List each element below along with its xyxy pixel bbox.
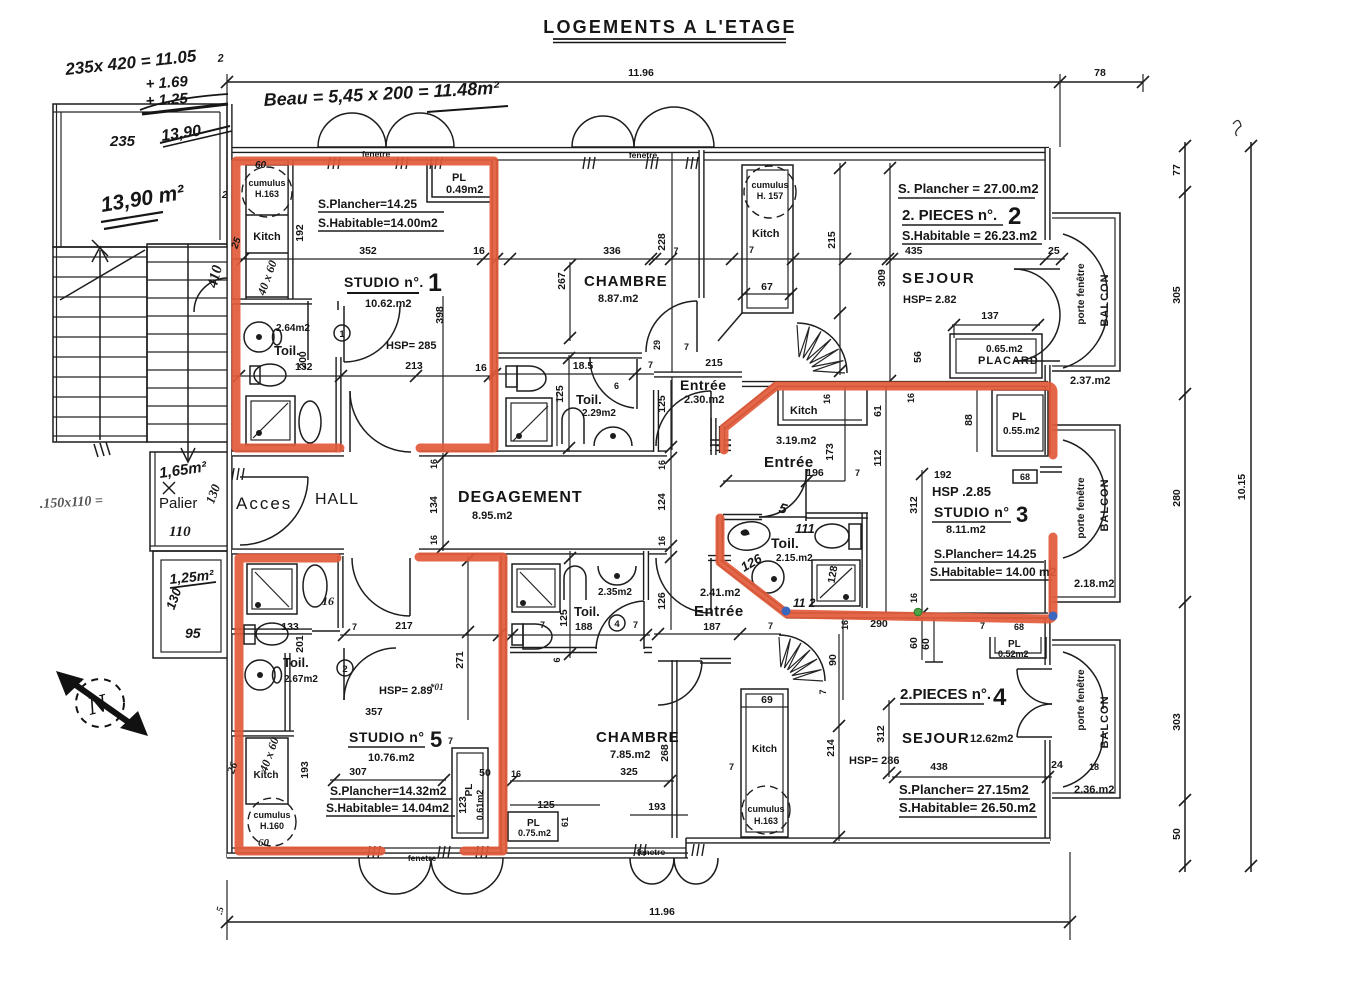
chambre top room walls: [497, 150, 714, 455]
svg-text:61: 61: [560, 817, 570, 827]
sejour unit 2: [902, 270, 1044, 363]
palier box: [150, 452, 228, 551]
svg-text:187: 187: [703, 621, 721, 633]
svg-text:*01: *01: [430, 682, 444, 692]
svg-text:352: 352: [359, 245, 377, 257]
walls of studio 3 boundary (under red): [719, 384, 1048, 616]
green node dot: [914, 608, 922, 616]
svg-text:Toil.: Toil.: [576, 392, 602, 407]
sink studio 5: [245, 660, 282, 690]
svg-text:porte fenêtre: porte fenêtre: [1076, 263, 1087, 325]
svg-text:0.65.m2: 0.65.m2: [986, 344, 1023, 355]
svg-text:305: 305: [1171, 286, 1183, 304]
studio 1 texts: [274, 197, 444, 358]
svg-text:S.Plancher= 14.25: S.Plancher= 14.25: [934, 547, 1037, 561]
studio 1 bathroom walls: [308, 301, 339, 452]
studio 5 bath labels: [281, 594, 353, 685]
svg-text:Toil.: Toil.: [574, 604, 600, 619]
svg-text:188: 188: [575, 621, 593, 633]
wall bottom (left part, lower): [227, 852, 688, 858]
PL 0.55 closet unit 3: [963, 390, 1048, 456]
door arc unit2 entry with tile hatch: [797, 323, 847, 373]
wc toilet 2.35: [564, 566, 586, 600]
svg-text:126: 126: [656, 592, 668, 610]
svg-text:10.15: 10.15: [1236, 474, 1248, 500]
svg-text:0.55.m2: 0.55.m2: [1003, 426, 1040, 437]
svg-text:cumulus: cumulus: [747, 804, 784, 814]
svg-text:6: 6: [614, 381, 619, 391]
svg-text:88: 88: [963, 414, 975, 426]
svg-text:16: 16: [840, 620, 850, 630]
svg-text:2: 2: [221, 190, 228, 201]
studio 5 texts: [299, 554, 505, 816]
svg-text:60: 60: [920, 638, 932, 650]
svg-text:213: 213: [405, 360, 423, 372]
svg-text:68: 68: [1020, 472, 1030, 482]
svg-text:16: 16: [475, 362, 487, 374]
dim column center x443: [428, 451, 449, 553]
top dimension line 11.96 / 78: [221, 67, 1149, 147]
svg-text:Toil.: Toil.: [283, 655, 309, 670]
svg-text:10.62.m2: 10.62.m2: [365, 298, 411, 310]
svg-text:S.Habitable = 26.23.m2: S.Habitable = 26.23.m2: [902, 229, 1037, 243]
svg-text:61: 61: [872, 405, 884, 417]
svg-text:11 2: 11 2: [793, 596, 816, 610]
svg-text:PL: PL: [464, 784, 475, 797]
corridor labels: [236, 489, 583, 522]
lower box (95): [153, 551, 228, 658]
dim columns unit2: [822, 162, 896, 404]
svg-text:S.Plancher=14.25: S.Plancher=14.25: [318, 197, 417, 211]
svg-text:SEJOUR: SEJOUR: [902, 270, 976, 287]
shower toilet 2.35: [512, 564, 560, 612]
unit3 toilet walls: [806, 469, 868, 608]
svg-text:Kitch: Kitch: [253, 231, 281, 243]
svg-text:312: 312: [908, 496, 920, 514]
palier label: [159, 482, 223, 540]
svg-text:2.15.m2: 2.15.m2: [776, 553, 813, 564]
svg-text:235: 235: [109, 133, 136, 150]
svg-text:90: 90: [827, 654, 839, 666]
svg-text:125: 125: [656, 395, 668, 413]
shower studio 5: [247, 564, 297, 614]
handwritten marks in unit 3 toilet: [738, 499, 816, 610]
svg-text:STUDIO n°: STUDIO n°: [349, 729, 424, 745]
svg-text:H.163: H.163: [754, 816, 778, 826]
svg-text:228: 228: [656, 233, 668, 251]
window fenetre bottom pair 2 (chambre): [630, 844, 718, 884]
handwritten Beau = 5,45x200: [263, 78, 508, 112]
shower studio 1: [246, 396, 295, 445]
svg-text:Toil.: Toil.: [274, 343, 300, 358]
svg-text:112: 112: [872, 449, 884, 466]
svg-text:H.163: H.163: [255, 189, 279, 199]
svg-text:2.PIECES n°.: 2.PIECES n°.: [900, 686, 991, 703]
red overlay studio 5: [239, 557, 503, 851]
balcony bottom box: [1052, 640, 1120, 798]
svg-text:6: 6: [552, 657, 562, 662]
kitchen unit 2: [718, 165, 797, 341]
svg-text:HSP= 2.89: HSP= 2.89: [379, 685, 433, 697]
cumulus H.163 studio 1: [242, 167, 292, 217]
svg-text:CHAMBRE: CHAMBRE: [584, 273, 668, 290]
svg-text:Entrée: Entrée: [680, 377, 727, 393]
svg-text:435: 435: [905, 245, 923, 257]
svg-text:60: 60: [255, 160, 267, 171]
blue node dot right: [1049, 612, 1058, 621]
wall left: [226, 104, 232, 858]
svg-text:+ 1.25: + 1.25: [145, 90, 189, 110]
svg-text:201: 201: [294, 635, 306, 653]
wc 2 studio 5: [244, 623, 288, 645]
placard unit 2: [950, 334, 1042, 378]
svg-text:309: 309: [876, 269, 888, 287]
balcony door unit3 sill: [1013, 467, 1062, 483]
handwritten 1,25 m2: [163, 566, 216, 641]
balcony door unit 4 inner arcs: [1017, 669, 1052, 737]
dim 267 chambre: [556, 262, 570, 341]
svg-text:7: 7: [633, 620, 638, 630]
stair walking line left flight: [99, 250, 101, 440]
svg-text:HALL: HALL: [315, 491, 359, 508]
svg-text:215: 215: [705, 357, 723, 369]
svg-text:7: 7: [749, 245, 754, 255]
svg-text:312: 312: [875, 725, 887, 743]
door arc stair landing to building: [194, 278, 228, 312]
svg-text:S.Habitable= 26.50.m2: S.Habitable= 26.50.m2: [899, 800, 1036, 815]
svg-text:271: 271: [454, 651, 466, 669]
door arc acces: [232, 468, 308, 545]
toilet 2.29 room fixtures: [506, 352, 632, 454]
wc studio 1: [250, 364, 286, 386]
shower unit 3: [812, 560, 860, 606]
svg-text:3: 3: [1016, 502, 1028, 527]
svg-text:2.18.m2: 2.18.m2: [1074, 578, 1114, 590]
balcony middle box: [1052, 425, 1120, 602]
toilet 2.35 room walls: [510, 551, 652, 660]
wall top: [227, 147, 1049, 153]
svg-text:2.41.m2: 2.41.m2: [700, 587, 740, 599]
svg-text:8.95.m2: 8.95.m2: [472, 510, 512, 522]
svg-text:268: 268: [659, 744, 671, 762]
svg-text:HSP= 286: HSP= 286: [849, 755, 899, 767]
svg-text:137: 137: [981, 310, 999, 322]
bottom dimension line 11.96: [214, 852, 1076, 940]
svg-text:2: 2: [216, 52, 224, 65]
svg-text:7: 7: [818, 689, 828, 694]
svg-text:12.62m2: 12.62m2: [970, 733, 1013, 745]
svg-text:H. 157: H. 157: [757, 191, 784, 201]
balcony door unit 2 inner arcs: [1014, 269, 1060, 361]
toilet 2.15 unit 3: [726, 519, 813, 593]
PL 0.75 closet chambre bottom: [508, 799, 600, 841]
svg-text:fenetre: fenetre: [408, 853, 437, 863]
door arc studio5 bathroom: [344, 648, 396, 700]
title LOGEMENTS A L'ETAGE: [543, 17, 796, 43]
svg-text:cumulus: cumulus: [253, 810, 290, 820]
handwritten 60 left wall marks: [221, 160, 267, 251]
svg-text:Kitch: Kitch: [790, 405, 818, 417]
svg-text:16: 16: [322, 594, 334, 608]
svg-text:cumulus: cumulus: [248, 178, 285, 188]
svg-text:196: 196: [806, 467, 824, 479]
svg-text:125: 125: [558, 609, 570, 627]
staircase right flight treads: [147, 244, 228, 462]
outer walls of building: [227, 104, 1050, 858]
studio 1 dims line y259: [232, 224, 494, 373]
svg-text:S.Plancher= 27.15m2: S.Plancher= 27.15m2: [899, 782, 1029, 797]
svg-text:7: 7: [855, 468, 860, 478]
svg-text:111: 111: [795, 521, 815, 536]
unit 2 title block: [886, 181, 1068, 265]
svg-text:Acces: Acces: [236, 494, 292, 513]
door arc unit4 entry with tile hatch: [779, 618, 943, 700]
svg-text:4: 4: [993, 684, 1007, 711]
svg-text:7: 7: [980, 621, 985, 631]
stair walking line right flight with down arrow: [187, 244, 189, 462]
svg-text:110: 110: [169, 524, 191, 540]
svg-text:280: 280: [1171, 489, 1183, 507]
svg-text:Toil.: Toil.: [771, 535, 799, 551]
chambre bottom labels: [506, 620, 688, 815]
svg-text:78: 78: [1094, 67, 1106, 79]
svg-text:SEJOUR: SEJOUR: [902, 730, 970, 747]
studio 1 : kitchen column walls: [232, 160, 312, 302]
datum line y259 middle segment: [491, 253, 894, 265]
svg-text:H.160: H.160: [260, 821, 284, 831]
svg-text:7: 7: [768, 621, 773, 631]
svg-text:LOGEMENTS A L'ETAGE: LOGEMENTS A L'ETAGE: [543, 17, 796, 37]
door arc chambre top: [646, 301, 697, 352]
studio 1 dims line y376: [232, 296, 496, 452]
svg-text:3.19.m2: 3.19.m2: [776, 435, 816, 447]
svg-text:29: 29: [652, 340, 662, 350]
wc unit 3: [815, 524, 861, 549]
door arc entree 2.30: [656, 391, 711, 446]
svg-text:398: 398: [434, 306, 446, 324]
svg-text:357: 357: [365, 706, 383, 718]
svg-text:cumulus: cumulus: [751, 180, 788, 190]
studio 5 right wall: [500, 556, 506, 853]
svg-text:133: 133: [281, 621, 299, 633]
svg-text:24: 24: [1051, 759, 1063, 771]
svg-text:HSP .2.85: HSP .2.85: [932, 484, 991, 499]
red overlay studio 3: [720, 386, 1053, 619]
dim column center x671: [656, 380, 677, 630]
svg-text:77: 77: [1171, 164, 1183, 176]
svg-text:DEGAGEMENT: DEGAGEMENT: [458, 489, 583, 506]
svg-text:7: 7: [684, 342, 689, 352]
svg-text:95: 95: [185, 625, 201, 641]
door arc entree 2.41: [656, 558, 711, 613]
blue node dot left: [782, 607, 791, 616]
svg-text:192: 192: [294, 224, 306, 242]
svg-text:CHAMBRE: CHAMBRE: [596, 729, 680, 746]
PL closet studio 5: [448, 736, 521, 838]
svg-text:BALCON: BALCON: [1099, 273, 1111, 326]
svg-text:267: 267: [556, 272, 568, 290]
svg-text:porte fenêtre: porte fenêtre: [1076, 477, 1087, 539]
studio 5 bathroom walls: [232, 556, 341, 734]
svg-text:16: 16: [657, 460, 667, 470]
svg-text:S.Plancher=14.32m2: S.Plancher=14.32m2: [330, 784, 447, 798]
svg-text:STUDIO n°: STUDIO n°: [934, 504, 1009, 520]
svg-text:50: 50: [1171, 828, 1183, 840]
svg-text:16: 16: [473, 245, 485, 257]
wc 2 studio 1: [299, 401, 321, 443]
handwritten 1,65 m2: [158, 458, 208, 494]
dim line toilet 2.35: [506, 629, 652, 641]
svg-text:porte fenêtre: porte fenêtre: [1076, 669, 1087, 731]
svg-text:193: 193: [299, 761, 311, 779]
svg-text:fenetre: fenetre: [637, 847, 666, 857]
svg-text:438: 438: [930, 761, 948, 773]
svg-text:16: 16: [429, 459, 439, 469]
studio 5 kitchen: [246, 735, 296, 849]
balcony top box: [1052, 213, 1120, 387]
svg-text:7: 7: [352, 622, 357, 632]
svg-text:2.37.m2: 2.37.m2: [1070, 375, 1110, 387]
hall top walls / entree 2.30: [652, 340, 742, 445]
svg-text:2: 2: [342, 664, 347, 675]
staircase landing box: [53, 104, 227, 247]
svg-text:2.35m2: 2.35m2: [598, 587, 632, 598]
svg-text:S. Plancher = 27.00.m2: S. Plancher = 27.00.m2: [898, 181, 1039, 196]
north arrow: [56, 671, 148, 736]
svg-text:123: 123: [457, 796, 469, 814]
svg-text:56: 56: [912, 351, 924, 363]
svg-text:69: 69: [761, 694, 773, 706]
door arc toilet 2.35: [596, 601, 644, 649]
unit 4 title block: [825, 634, 1099, 843]
svg-text:16: 16: [822, 394, 832, 404]
svg-text:2. PIECES n°.: 2. PIECES n°.: [902, 207, 997, 224]
red overlay studio 1: [236, 161, 494, 448]
svg-text:HSP= 2.82: HSP= 2.82: [903, 294, 957, 306]
svg-text:2.30.m2: 2.30.m2: [684, 394, 724, 406]
studio 3 text block: [908, 468, 1057, 660]
toilet 2.35 labels: [552, 587, 638, 663]
svg-text:336: 336: [603, 245, 621, 257]
svg-text:132: 132: [295, 361, 313, 373]
svg-text:1: 1: [428, 269, 442, 297]
svg-text:11.96: 11.96: [628, 67, 654, 79]
door arc chambre bottom: [658, 661, 702, 705]
svg-text:0.75.m2: 0.75.m2: [518, 828, 551, 838]
PL closet top of studio 1: [427, 163, 490, 202]
PL 0.52 closet: [990, 637, 1046, 659]
svg-text:HSP= 285: HSP= 285: [386, 340, 436, 352]
door arc studio1 bathroom: [344, 306, 400, 362]
svg-text:10.76.m2: 10.76.m2: [368, 752, 414, 764]
svg-text:16: 16: [909, 593, 919, 603]
svg-text:2.67m2: 2.67m2: [284, 674, 318, 685]
svg-text:0.52m2: 0.52m2: [998, 649, 1029, 659]
svg-text:1: 1: [339, 329, 345, 340]
svg-text:4: 4: [614, 619, 620, 630]
door arc studio1 entry: [350, 391, 411, 452]
window fenetre top pair 2: [572, 107, 714, 169]
door arc entree3 to studio3: [723, 469, 807, 520]
svg-text:2: 2: [1008, 203, 1021, 230]
svg-text:Entrée: Entrée: [694, 603, 744, 620]
handwritten 13,90 m2: [99, 181, 187, 229]
svg-text:124: 124: [656, 493, 668, 511]
svg-text:11.96: 11.96: [649, 906, 675, 918]
svg-text:8.11.m2: 8.11.m2: [946, 524, 986, 536]
studio 1 right wall (to chambre): [491, 160, 497, 452]
svg-text:PL: PL: [452, 172, 466, 184]
entree unit 3 dims: [720, 385, 916, 618]
svg-text:192: 192: [934, 469, 952, 481]
svg-text:215: 215: [826, 231, 838, 249]
svg-text:8.87.m2: 8.87.m2: [598, 293, 638, 305]
svg-text:7: 7: [540, 620, 545, 630]
svg-text:2.29m2: 2.29m2: [582, 408, 616, 419]
kitchen unit 3: [764, 390, 867, 471]
svg-text:0.61m2: 0.61m2: [475, 790, 485, 821]
svg-text:Kitch: Kitch: [752, 744, 777, 755]
staircase left flight treads: [53, 104, 147, 457]
svg-text:S.Habitable=14.00m2: S.Habitable=14.00m2: [318, 216, 438, 230]
svg-text:BALCON: BALCON: [1099, 695, 1111, 748]
kitchen unit 4: [729, 689, 790, 837]
right dimension line 1 (77/305/280/303/50): [1171, 140, 1191, 872]
svg-text:S.Habitable= 14.00 m2: S.Habitable= 14.00 m2: [930, 565, 1057, 579]
wc 1 studio 5: [303, 565, 327, 607]
window fenetre bottom pair 1 (studio 5): [359, 846, 503, 894]
chambre bottom walls: [671, 660, 677, 838]
svg-text:60: 60: [908, 637, 920, 649]
entree 2.41 labels: [652, 587, 1024, 640]
svg-text:7: 7: [729, 762, 734, 772]
svg-text:STUDIO n°.: STUDIO n°.: [344, 274, 424, 290]
svg-text:68: 68: [1014, 622, 1024, 632]
svg-text:16: 16: [657, 536, 667, 546]
svg-text:2.36.m2: 2.36.m2: [1074, 784, 1114, 796]
svg-text:307: 307: [349, 766, 367, 778]
svg-text:67: 67: [761, 281, 773, 293]
wall stub entree 2.41 / sejour 4: [700, 659, 731, 664]
svg-text:7: 7: [648, 360, 653, 370]
svg-text:5: 5: [430, 727, 442, 752]
svg-text:PL: PL: [1012, 411, 1026, 423]
chambre top labels: [489, 233, 700, 380]
svg-text:0.49m2: 0.49m2: [446, 184, 483, 196]
svg-text:217: 217: [395, 620, 413, 632]
svg-text:193: 193: [648, 801, 666, 813]
corridor walls (degagement): [232, 448, 731, 558]
svg-text:16: 16: [429, 535, 439, 545]
svg-text:325: 325: [620, 766, 638, 778]
svg-text:50: 50: [479, 767, 491, 779]
svg-text:S.Habitable= 14.04m2: S.Habitable= 14.04m2: [326, 801, 449, 815]
svg-text:Kitch: Kitch: [752, 228, 780, 240]
svg-text:214: 214: [825, 739, 837, 757]
sink studio 1: [244, 322, 282, 352]
svg-text:303: 303: [1171, 713, 1183, 731]
svg-text:173: 173: [824, 443, 836, 461]
door arc studio5 entry: [352, 558, 410, 616]
window fenetre top pair 1: [318, 113, 454, 169]
svg-text:134: 134: [428, 496, 440, 514]
svg-text:16: 16: [906, 393, 916, 403]
svg-text:7.85.m2: 7.85.m2: [610, 749, 650, 761]
svg-text:7: 7: [448, 736, 453, 746]
right dimension line 2 (10.15): [1233, 120, 1257, 872]
wall right (with door openings): [1044, 148, 1050, 841]
svg-text:125: 125: [554, 385, 566, 403]
